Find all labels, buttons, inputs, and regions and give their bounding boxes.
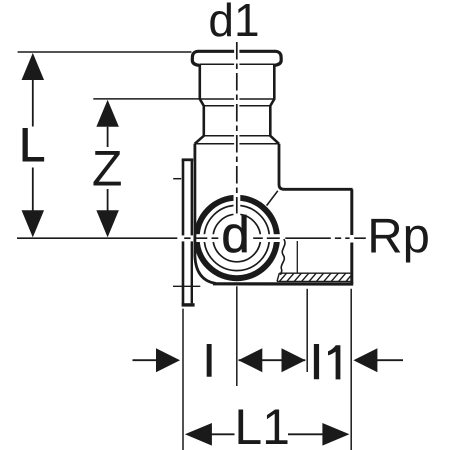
flange screw centerline tick lower bbox=[173, 285, 200, 287]
dimension L extension line (top) bbox=[18, 51, 192, 53]
socket wall upper left bbox=[195, 65, 204, 144]
flange plate bottom cap bbox=[182, 303, 195, 306]
bead bottom line bbox=[200, 63, 274, 65]
body circle outer (press boss) bbox=[197, 198, 277, 278]
white gaps in circles at centerline crossings bbox=[192, 194, 281, 242]
horizontal centerline dash in flange plate bbox=[184, 237, 190, 239]
horizontal centerline solid left part bbox=[17, 237, 177, 239]
dimension Z line upper bbox=[107, 127, 109, 147]
trunk right wall into outlet top bbox=[279, 144, 353, 190]
dimension l arrow left (outside) bbox=[238, 348, 262, 372]
thread hatch band left end bbox=[277, 273, 279, 281]
wall flange plate bbox=[182, 160, 185, 304]
socket step line 2 bbox=[204, 105, 270, 107]
body circle inner ring 2 bbox=[213, 214, 261, 262]
press socket bead (top) bbox=[192, 51, 281, 65]
dimension L1 arrow right bbox=[322, 423, 349, 446]
flange screw centerline tick upper bbox=[173, 178, 181, 180]
label l1 digit bbox=[328, 345, 340, 379]
dimension l1 arrow right (outside) bbox=[282, 348, 306, 372]
svg-text:Z: Z bbox=[92, 141, 123, 197]
svg-text:l: l bbox=[204, 337, 214, 386]
dimension l1 arrow left bbox=[353, 348, 377, 372]
svg-text:d: d bbox=[221, 206, 249, 263]
flange left edge gap at centerline bbox=[181, 235, 184, 241]
outlet bottom outline bbox=[213, 282, 353, 285]
svg-text:L: L bbox=[19, 118, 45, 171]
svg-text:d1: d1 bbox=[208, 0, 259, 46]
svg-text:Rp: Rp bbox=[367, 209, 430, 263]
dimension Z arrow down bbox=[96, 210, 119, 237]
dimension L line upper bbox=[32, 80, 34, 127]
dimension l-l1 shared line bbox=[239, 359, 306, 361]
thread hatch band top line bbox=[279, 272, 350, 274]
socket step line 1 bbox=[200, 98, 274, 100]
dimension l1 tail line right bbox=[376, 359, 404, 361]
extension line below flange bbox=[182, 309, 184, 450]
thread hatch band bottom line bbox=[277, 280, 350, 282]
thread start break squiggle bbox=[281, 239, 285, 275]
socket wall upper right bbox=[270, 65, 279, 144]
trunk left wall with bottom fillet bbox=[195, 144, 216, 284]
vertical centerline dash-dot upper bbox=[236, 42, 238, 214]
extension line below outlet end bbox=[350, 289, 352, 450]
socket step line 3 bbox=[204, 135, 270, 137]
dimension L arrow down bbox=[22, 210, 45, 237]
dimension L1 line right bbox=[288, 433, 327, 435]
transition diagonal from body corner to boss bbox=[267, 191, 278, 206]
body circle inner ring 1 bbox=[204, 205, 269, 270]
dimension L1 line left bbox=[209, 433, 235, 435]
svg-text:l: l bbox=[311, 336, 321, 389]
extension line below thread start bbox=[306, 289, 308, 372]
dimension Z line lower bbox=[107, 189, 109, 211]
horizontal centerline dashes through boss bbox=[194, 237, 280, 239]
dimension L arrow up bbox=[22, 53, 45, 80]
vertical centerline extension below body bbox=[236, 286, 238, 386]
thread depth line bbox=[296, 241, 298, 273]
dimension Z extension line bbox=[93, 98, 198, 100]
dimension L1 arrow left bbox=[185, 423, 212, 446]
outlet right end face upper bbox=[350, 189, 353, 235]
dimension l arrow right bbox=[156, 348, 180, 372]
dimension l tail line left bbox=[133, 359, 159, 361]
horizontal centerline long dash dot right bbox=[285, 237, 366, 239]
thread hatch strokes bbox=[279, 273, 350, 281]
dimension L line lower bbox=[32, 168, 34, 212]
outlet right end face lower bbox=[350, 243, 353, 285]
socket step line 4 bbox=[195, 143, 279, 145]
dimension Z arrow up bbox=[96, 100, 119, 127]
bead top centerline gap bbox=[234, 49, 239, 55]
svg-text:L1: L1 bbox=[234, 399, 290, 450]
